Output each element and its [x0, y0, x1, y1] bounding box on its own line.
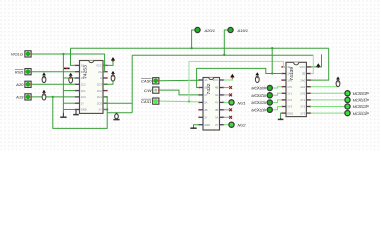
terminal A19/1 — [228, 27, 233, 32]
svg-text:2Y: 2Y — [204, 116, 207, 120]
wire MCAS1# to pin — [273, 93, 282, 95]
svg-text:1G: 1G — [81, 64, 85, 68]
no-connect X y=94.9 — [229, 94, 232, 97]
junction rail A19/1 — [223, 54, 225, 56]
svg-text:1B: 1B — [204, 86, 207, 90]
ground G2 at pin 8 — [73, 110, 79, 115]
svg-text:1A1: 1A1 — [287, 78, 292, 82]
svg-text:CAS1: CAS1 — [141, 99, 151, 104]
no-connect X y=109.8 — [229, 108, 232, 111]
svg-text:MCAS2#: MCAS2# — [251, 101, 267, 105]
wire CAS1 to pin 4 — [160, 100, 199, 103]
junction at pin 1A0 wire — [271, 72, 273, 74]
pullup RP1 — [42, 72, 46, 82]
svg-text:GND: GND — [287, 111, 293, 115]
wire pullup RP4 to pin 13 — [103, 81, 113, 84]
svg-text:4B: 4B — [215, 86, 218, 90]
svg-text:NU1: NU1 — [238, 100, 246, 105]
wire pin to MCAS1/P — [310, 99, 345, 101]
svg-text:1A0: 1A0 — [287, 72, 292, 76]
svg-text:A20/1: A20/1 — [204, 28, 215, 33]
svg-text:1C2: 1C2 — [81, 83, 86, 87]
IC U1 74253 multiplexer — [75, 61, 108, 114]
svg-text:MCAS0/P: MCAS0/P — [353, 92, 370, 96]
svg-text:1Y2: 1Y2 — [287, 98, 292, 102]
wire from A19/1 down to rail B — [224, 30, 227, 55]
wire rail C2 (pale) — [189, 60, 284, 62]
wire CAS0 to pin 1 — [160, 79, 199, 82]
svg-text:MCAS3#: MCAS3# — [251, 109, 267, 113]
wire MCAS0# to pin — [273, 87, 282, 88]
wire RXD to pin 2 — [31, 71, 75, 73]
svg-text:3Y: 3Y — [215, 123, 218, 127]
terminal VIOLG — [25, 51, 32, 57]
svg-text:C/W: C/W — [144, 88, 153, 93]
svg-text:A: A — [100, 76, 102, 80]
wire bus stub y=103.2 — [63, 102, 75, 104]
wire A19 to pin 6 — [31, 96, 75, 98]
svg-text:VCC: VCC — [96, 64, 102, 68]
svg-text:4A: 4A — [215, 93, 218, 97]
wire pin to NU1 — [224, 101, 229, 103]
svg-text:1C1: 1C1 — [81, 89, 86, 93]
no-connect X y=117.3 — [229, 116, 232, 119]
unconnected pin stub y=94.9 — [224, 94, 230, 96]
junction rail A A20/1 — [190, 47, 192, 49]
IC U3 74139 decoder — [281, 62, 311, 116]
pullup RP4 — [111, 71, 115, 81]
unconnected pin stub y=117.3 — [224, 116, 230, 118]
no-connect X y=87.5 — [229, 86, 232, 89]
svg-text:2Y3: 2Y3 — [300, 111, 305, 115]
svg-text:1C3: 1C3 — [81, 76, 86, 80]
wire VIOLG rail B down to pin 15 — [31, 54, 104, 72]
wire vertical x=132 — [131, 55, 133, 112]
jumper dash near pin 2 of 74253 — [64, 68, 70, 69]
svg-text:GND: GND — [204, 123, 210, 127]
terminal A20/1 — [195, 27, 200, 32]
IC U2 7432 quad OR gate — [198, 78, 224, 131]
wire rail C2 into pin 1E — [284, 61, 287, 67]
svg-text:A20: A20 — [15, 82, 24, 87]
svg-text:2A: 2A — [204, 101, 207, 105]
svg-text:VCC: VCC — [300, 65, 306, 69]
wire VCC drop at x=321 — [310, 54, 321, 67]
junction VIOLG bus — [62, 53, 64, 55]
svg-text:1Y1: 1Y1 — [287, 92, 292, 96]
wire pin 2Y to U — [103, 109, 107, 111]
junction rail A x=272 — [271, 47, 273, 49]
svg-text:1Y: 1Y — [204, 93, 207, 97]
svg-text:VIOLG: VIOLG — [11, 52, 23, 57]
ground G5 right chip — [278, 118, 284, 119]
wire rail A (A20 net) — [71, 47, 329, 49]
wire bottom U route — [53, 97, 107, 128]
svg-text:2G: 2G — [98, 70, 102, 74]
svg-text:2Y: 2Y — [99, 108, 102, 112]
unconnected pin stub y=109.8 — [224, 109, 230, 111]
terminal NU2 — [229, 122, 234, 127]
wire bus stub y=90.6 — [63, 90, 75, 92]
svg-text:2B: 2B — [204, 108, 207, 112]
power terminal P3 — [316, 63, 320, 68]
terminal MCAS2# — [267, 100, 272, 105]
terminal A19 — [25, 94, 32, 100]
terminal MCAS3/P — [345, 111, 350, 116]
terminal MCAS2/P — [345, 104, 350, 109]
pullup RP3 — [69, 73, 73, 83]
svg-text:VCC: VCC — [213, 78, 219, 82]
svg-text:A19/1: A19/1 — [237, 28, 248, 33]
svg-text:NU2: NU2 — [238, 123, 247, 128]
wire from A20/1 down to rail A — [192, 30, 195, 48]
wire pin 2A1 with pullup — [310, 86, 338, 88]
junction at U right — [106, 108, 108, 110]
wire bus stub y=109.5 — [63, 109, 75, 111]
wire pin to MCAS0/P — [310, 92, 345, 94]
pullup RP6 — [336, 77, 340, 87]
svg-text:1Y0: 1Y0 — [287, 85, 292, 89]
svg-text:2E: 2E — [302, 72, 305, 76]
wire rail A drop to pin 1A0 — [271, 48, 273, 73]
wire rail C1 — [132, 54, 313, 56]
svg-text:1A: 1A — [204, 78, 207, 82]
wire rail A corner down to pin 1 — [71, 48, 76, 65]
ground G4 middle chip — [190, 127, 196, 128]
svg-text:2C3: 2C3 — [97, 83, 102, 87]
pullup RP2 — [42, 90, 46, 100]
svg-text:MCAS2/P: MCAS2/P — [353, 105, 370, 109]
wire MCAS2# to pin — [273, 100, 282, 103]
wire pale drop rail C2 to pin 4 — [188, 61, 190, 101]
wire A20 to pin 4 — [31, 83, 75, 85]
wire C/W to pin 3 — [160, 90, 199, 95]
terminal CAS1 — [153, 98, 160, 104]
terminal MCAS1# — [267, 93, 272, 98]
terminal MCAS3# — [267, 107, 272, 112]
terminal MCAS0/P — [345, 91, 350, 96]
wire bus stub y=78.0 — [63, 77, 75, 79]
wire VCC pin to power arrow — [103, 61, 113, 66]
terminal MCAS1/P — [345, 97, 350, 102]
svg-text:2A1: 2A1 — [300, 85, 305, 89]
unconnected pin stub y=87.5 — [224, 87, 230, 89]
wire pin to MCAS2/P — [310, 106, 345, 108]
svg-text:MCAS3/P: MCAS3/P — [353, 112, 370, 116]
terminal A20 — [25, 81, 32, 87]
power terminal P2 — [230, 74, 234, 79]
svg-text:1Y3: 1Y3 — [287, 105, 292, 109]
svg-text:1C0: 1C0 — [81, 95, 86, 99]
wire MCAS3# to pin — [273, 107, 282, 110]
terminal MCAS0# — [267, 85, 272, 90]
svg-text:2A0: 2A0 — [300, 78, 305, 82]
svg-text:2Y1: 2Y1 — [300, 98, 305, 102]
junction A19 tee — [52, 96, 54, 98]
junction CAS1 — [188, 100, 190, 102]
wire pin to NU2 — [224, 124, 229, 126]
pullup RP5 — [255, 72, 259, 82]
svg-text:1E: 1E — [287, 65, 290, 69]
svg-text:4Y: 4Y — [215, 101, 218, 105]
terminal RXD — [25, 69, 32, 75]
ground G1 under bus — [60, 113, 66, 118]
svg-text:A19: A19 — [15, 95, 24, 100]
svg-text:RXD: RXD — [15, 69, 24, 74]
svg-text:MCAS0#: MCAS0# — [251, 87, 267, 91]
terminal NU1 — [229, 100, 234, 105]
power terminal P1 — [111, 57, 115, 62]
svg-text:B: B — [81, 70, 83, 74]
svg-text:1Y: 1Y — [81, 101, 84, 105]
svg-text:MCAS1/P: MCAS1/P — [353, 99, 370, 103]
svg-text:2C0: 2C0 — [97, 101, 102, 105]
wire bus vertical at left chip — [62, 54, 64, 113]
ground G3 with oval — [113, 113, 119, 120]
svg-text:2C2: 2C2 — [97, 89, 102, 93]
svg-text:2C1: 2C1 — [97, 95, 102, 99]
svg-text:MCAS1#: MCAS1# — [251, 94, 267, 98]
wire GND pin 8 — [281, 113, 282, 118]
svg-text:3A: 3A — [215, 116, 218, 120]
terminal C/W — [153, 87, 160, 93]
svg-text:GND: GND — [81, 108, 87, 112]
wire middle pin 2 over to right chip pin 1A0 — [197, 68, 282, 87]
wire GND pin 7 — [194, 125, 200, 127]
wire VCC to power arrow — [224, 77, 233, 80]
dot grid background — [0, 0, 381, 150]
svg-text:3B: 3B — [215, 108, 218, 112]
svg-text:2Y0: 2Y0 — [300, 92, 305, 96]
terminal CAS0 — [153, 78, 160, 84]
wire bottom rail to pale vertical — [107, 112, 132, 114]
svg-text:CAS0: CAS0 — [141, 79, 152, 84]
wire rail C1 drop to pin 2E — [310, 55, 313, 73]
wire pin to MCAS3/P — [310, 112, 345, 114]
wire rail A drop to pin 2A0 — [310, 48, 328, 80]
wire pin 2C0 to vertical x=132 — [103, 102, 132, 104]
svg-text:2Y2: 2Y2 — [300, 105, 305, 109]
